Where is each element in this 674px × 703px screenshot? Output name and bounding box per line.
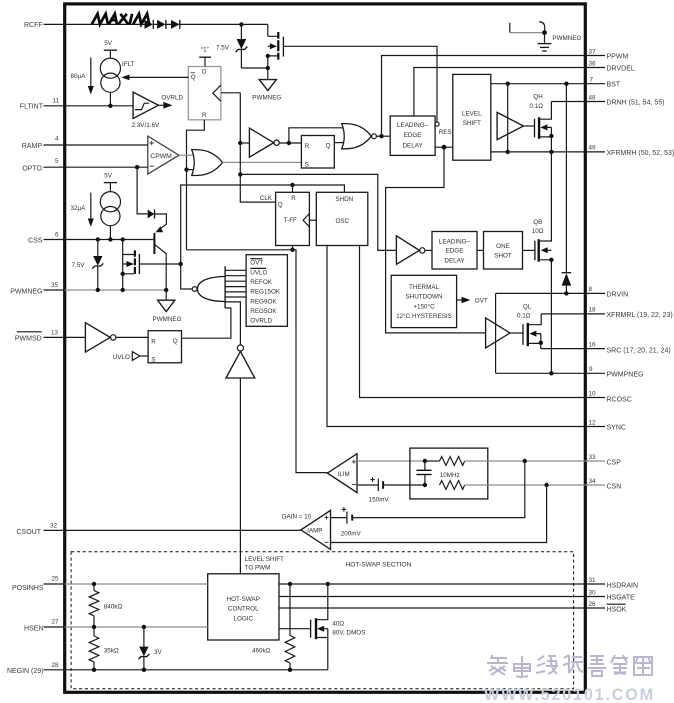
label LEVEL SHIFT TO PWM xyxy=(245,556,284,571)
pin 6 CSS xyxy=(28,232,65,245)
diode D2 on RCFF line xyxy=(157,20,166,29)
gate OR1 (pwm or) xyxy=(192,150,223,176)
svg-text:REG9OK: REG9OK xyxy=(250,298,277,305)
wire OSC to T-FF clock xyxy=(309,219,316,221)
wire SRC xyxy=(541,348,586,350)
wire PWMSD internal xyxy=(65,336,86,338)
resistor 840k xyxy=(89,584,122,627)
svg-text:ILIM: ILIM xyxy=(338,471,350,478)
svg-text:840kΩ: 840kΩ xyxy=(104,604,123,611)
svg-text:12°C HYSTERESIS: 12°C HYSTERESIS xyxy=(396,312,452,320)
svg-text:OVRLD: OVRLD xyxy=(161,94,183,101)
transistor top PFET rail xyxy=(267,24,269,79)
wire Qbar to IFLT arrow xyxy=(121,75,188,81)
wire FLTINT internal xyxy=(65,105,133,107)
wire CPWM output (gray) xyxy=(179,154,194,156)
ground PWMNEG triangle css xyxy=(153,290,182,323)
svg-text:8: 8 xyxy=(589,286,593,293)
zener 3V xyxy=(138,627,162,670)
svg-text:LEADING–: LEADING– xyxy=(439,238,471,245)
svg-text:LOGIC: LOGIC xyxy=(233,615,253,622)
svg-text:R: R xyxy=(305,143,310,150)
svg-text:28: 28 xyxy=(52,662,60,669)
svg-text:PWMPNEG: PWMPNEG xyxy=(607,371,644,378)
svg-text:REFOK: REFOK xyxy=(250,279,272,286)
wire OR1 output to S (gray) xyxy=(223,161,302,163)
wire level-shift-to-pwm riser xyxy=(239,378,241,574)
wire RCFF net xyxy=(44,23,268,25)
pin 32 CSOUT xyxy=(17,523,65,537)
junction dots PFET source / zener xyxy=(266,54,270,58)
svg-text:30: 30 xyxy=(589,589,597,596)
svg-text:HSEN: HSEN xyxy=(24,625,43,632)
svg-text:Q: Q xyxy=(278,201,283,208)
wire NEGIN xyxy=(65,669,328,671)
svg-text:XFRMRH (50, 52, 53): XFRMRH (50, 52, 53) xyxy=(607,150,674,157)
node DRVIN diode dot xyxy=(564,291,568,295)
wire D-FF R to OR input and down xyxy=(187,120,205,250)
inverter PWMSD xyxy=(85,323,116,352)
wire ONE SHOT to QB gate xyxy=(523,249,535,251)
wire NAND output up to SHDN net xyxy=(181,185,345,289)
wire LED1 out to LEVEL SHIFT xyxy=(435,146,453,148)
transistor DMOS 40ohm xyxy=(311,584,366,670)
svg-text:IAMP: IAMP xyxy=(307,528,322,535)
svg-text:5: 5 xyxy=(55,158,59,165)
svg-text:7: 7 xyxy=(590,77,594,84)
wire XFRMRH xyxy=(491,151,586,153)
svg-text:BST: BST xyxy=(607,82,621,89)
svg-text:LEVEL: LEVEL xyxy=(462,111,482,118)
wire HSEN (gray) xyxy=(65,626,208,628)
svg-text:32µA: 32µA xyxy=(71,205,87,212)
box OSC xyxy=(316,192,368,245)
svg-text:48: 48 xyxy=(589,94,597,101)
pin 36 DRVDEL xyxy=(586,60,635,72)
inverter hot-swap status (points up) xyxy=(226,345,255,378)
node R input dot xyxy=(287,141,291,145)
pin 5 OPTO xyxy=(22,158,64,173)
svg-text:Q: Q xyxy=(191,74,196,81)
node PPWM tap dot xyxy=(379,134,383,138)
input UVLO wedge to S xyxy=(113,352,148,361)
wire OSC out to SYNC xyxy=(327,246,586,427)
svg-text:SRC (17, 20, 21, 24): SRC (17, 20, 21, 24) xyxy=(607,348,671,355)
comparator FLTINT schmitt 2.3V/1.6V xyxy=(132,92,184,129)
svg-text:16: 16 xyxy=(589,341,597,348)
zener 7.5V top xyxy=(236,24,268,68)
MAXIM logo xyxy=(92,14,150,24)
svg-text:CPWM: CPWM xyxy=(150,153,172,160)
svg-text:SHOT: SHOT xyxy=(494,253,512,260)
wire T-FF R stub xyxy=(292,185,294,192)
svg-text:CSP: CSP xyxy=(607,460,622,467)
svg-text:WWW.520101.COM: WWW.520101.COM xyxy=(484,686,655,703)
node PWMPNEG dot xyxy=(549,371,553,375)
pin 13 PWMSD (overline) xyxy=(15,330,65,343)
transistor top PFET xyxy=(268,32,284,60)
pin 49 XFRMRH xyxy=(586,145,674,157)
flip-flop U1 D-type (gray) xyxy=(188,46,221,120)
svg-text:GAIN = 10: GAIN = 10 xyxy=(282,514,312,521)
svg-text:49: 49 xyxy=(589,145,597,152)
wire OPTO clamp branch to diode xyxy=(137,167,148,214)
svg-text:13: 13 xyxy=(51,330,59,337)
svg-text:THERMAL: THERMAL xyxy=(409,284,440,291)
wire DMOS gate from HSCL xyxy=(279,628,310,630)
wire OVT output arrow xyxy=(457,297,488,305)
node CSS junction dots xyxy=(96,237,100,241)
wire CLK to low-side inverter xyxy=(240,174,396,250)
capacitor C1 xyxy=(416,461,431,485)
svg-text:EDGE: EDGE xyxy=(446,248,464,255)
battery 200mV xyxy=(331,507,362,537)
svg-text:R: R xyxy=(202,112,207,119)
svg-text:7.5V: 7.5V xyxy=(216,45,230,52)
diode bootstrap xyxy=(562,273,572,294)
box HOT-SWAP CONTROL LOGIC xyxy=(208,574,279,640)
svg-text:460kΩ: 460kΩ xyxy=(252,647,271,654)
svg-text:Q: Q xyxy=(173,338,178,345)
diode clamp (to PNP emitter) xyxy=(148,209,155,218)
svg-text:37: 37 xyxy=(589,48,597,55)
svg-text:OVRLD: OVRLD xyxy=(250,318,272,325)
svg-text:HSOK: HSOK xyxy=(607,607,627,614)
node CSP/CSN filter dots xyxy=(423,459,427,463)
svg-text:OSC: OSC xyxy=(335,218,349,225)
svg-text:FLTINT: FLTINT xyxy=(20,104,44,111)
wire riser to NOR input 1 xyxy=(289,128,343,143)
svg-text:D: D xyxy=(202,69,207,76)
svg-text:T-FF: T-FF xyxy=(284,217,297,224)
svg-text:R: R xyxy=(151,338,156,345)
resistor R csn xyxy=(440,481,465,490)
svg-text:SHUTDOWN: SHUTDOWN xyxy=(405,294,443,301)
diode D3 on RCFF line xyxy=(171,20,180,29)
svg-text:DRNH (51, 54, 55): DRNH (51, 54, 55) xyxy=(607,100,665,107)
wire D-FF clock from CLK net xyxy=(221,92,240,94)
node PWMNEG junction dots xyxy=(96,288,100,292)
hot-swap dashed section box xyxy=(71,552,573,689)
box ONE SHOT xyxy=(484,232,523,270)
pin 4 RAMP xyxy=(22,136,65,151)
amplifier IAMP xyxy=(282,510,331,549)
wire CLK net vertical xyxy=(240,93,275,202)
svg-text:+150°C: +150°C xyxy=(413,302,435,310)
svg-text:DRVDEL: DRVDEL xyxy=(607,66,635,73)
wire CSP (gray) xyxy=(465,460,586,462)
svg-text:SHDN: SHDN xyxy=(335,196,353,203)
svg-text:36: 36 xyxy=(589,60,597,67)
wire HSDRAIN xyxy=(279,583,586,585)
NAND input stub 7 from inverter xyxy=(225,302,240,345)
svg-text:DRVIN: DRVIN xyxy=(607,291,629,298)
svg-text:80V, DMOS: 80V, DMOS xyxy=(332,630,365,637)
svg-text:IFLT: IFLT xyxy=(122,61,135,68)
wire DRVDEL xyxy=(414,68,586,117)
diode D1 on RCFF line xyxy=(145,20,154,29)
NAND input stubs from signal box xyxy=(225,270,246,297)
box LEVEL SHIFT xyxy=(453,74,491,160)
wire CSS internal (base) xyxy=(65,239,154,241)
svg-text:35kΩ: 35kΩ xyxy=(104,648,119,655)
pin 9 PWMPNEG xyxy=(586,366,644,378)
pin 25 POSINHS xyxy=(12,576,65,593)
svg-text:UVLO: UVLO xyxy=(113,354,130,361)
label 80uA with arrow xyxy=(71,58,94,95)
svg-text:PWMNEG: PWMNEG xyxy=(552,35,581,42)
ground symbol PWMNEG top right xyxy=(510,22,582,51)
resistor 35k xyxy=(89,627,119,670)
wire CSN (gray) xyxy=(465,484,586,486)
svg-text:150mV: 150mV xyxy=(369,497,390,504)
svg-text:CSS: CSS xyxy=(28,238,43,245)
wire RAMP internal xyxy=(65,144,148,146)
buffer QH driver xyxy=(497,112,523,139)
svg-text:REG15OK: REG15OK xyxy=(250,289,281,296)
svg-text:40Ω: 40Ω xyxy=(332,621,344,628)
box LEADING-EDGE DELAY 2 xyxy=(432,232,477,270)
chip boundary box xyxy=(65,4,586,692)
node junction on RCFF at zener xyxy=(239,22,243,26)
svg-text:DELAY: DELAY xyxy=(403,143,424,150)
svg-text:5V: 5V xyxy=(104,40,113,47)
resistor 460k xyxy=(252,584,295,670)
svg-text:9: 9 xyxy=(589,366,593,373)
svg-text:CLK: CLK xyxy=(260,195,273,202)
inverter low-side xyxy=(396,236,432,264)
svg-text:32: 32 xyxy=(50,523,58,530)
transistor M1 (CSS discharge FET) xyxy=(123,240,181,291)
pin 28 NEGIN (29) xyxy=(7,662,65,675)
svg-text:PWMSD: PWMSD xyxy=(15,336,42,343)
svg-text:5V: 5V xyxy=(104,173,113,180)
pin 31 HSDRAIN xyxy=(586,577,638,590)
svg-text:“1”: “1” xyxy=(201,46,209,53)
node CSN sense dot xyxy=(544,483,548,487)
battery 150mV xyxy=(357,477,425,503)
node CSP sense dot xyxy=(523,459,527,463)
svg-text:200mV: 200mV xyxy=(341,531,362,538)
wire OSC out to RCOSC xyxy=(360,246,586,398)
svg-text:2.3V/1.6V: 2.3V/1.6V xyxy=(132,122,160,129)
wire ILIM plus input (gray) xyxy=(357,460,425,462)
wire HSGATE xyxy=(279,596,586,598)
pin 33 CSP xyxy=(586,454,621,467)
svg-text:UVLO: UVLO xyxy=(250,269,267,276)
svg-text:10Ω: 10Ω xyxy=(532,228,544,235)
svg-text:QB: QB xyxy=(533,219,542,226)
node LED1 output dot xyxy=(442,145,447,150)
svg-text:18: 18 xyxy=(589,307,597,314)
pin 26 HSOK (overline) xyxy=(586,601,627,614)
wire OPTO internal xyxy=(65,166,148,168)
flip-flop T-FF box xyxy=(276,192,310,245)
svg-text:ONE: ONE xyxy=(496,243,510,250)
svg-text:HSGATE: HSGATE xyxy=(607,595,636,602)
svg-text:7.5V: 7.5V xyxy=(72,262,86,269)
pin 18 XFRMRL xyxy=(586,307,673,319)
svg-text:10MHz: 10MHz xyxy=(440,472,460,479)
wire QL driver rails DRVIN xyxy=(496,293,586,373)
node HSEN dots xyxy=(92,625,96,629)
wire PPWM riser xyxy=(382,56,586,137)
wire HSOK xyxy=(279,607,586,609)
pin 37 PPWM xyxy=(586,48,629,60)
node gate tap dot xyxy=(179,262,183,266)
svg-text:OVT: OVT xyxy=(250,260,263,267)
svg-text:6: 6 xyxy=(55,232,59,239)
node FLTINT / IFLT junction xyxy=(108,104,112,108)
wire T-FF bottom to OR/ILIM net xyxy=(292,246,294,250)
svg-text:HOT-SWAP: HOT-SWAP xyxy=(227,596,260,603)
svg-text:S: S xyxy=(151,356,155,363)
pin 12 SYNC xyxy=(586,419,626,431)
svg-text:12: 12 xyxy=(589,419,597,426)
svg-text:26: 26 xyxy=(589,601,597,608)
svg-text:PWMNEG: PWMNEG xyxy=(252,94,281,101)
flip-flop RS1 (pwm latch) xyxy=(301,136,334,169)
wire CSOUT xyxy=(65,529,301,531)
svg-text:CSN: CSN xyxy=(607,484,622,491)
wire RS1 Q to NOR input 2 xyxy=(334,142,343,144)
svg-text:NEGIN (29): NEGIN (29) xyxy=(7,668,44,675)
svg-text:3V: 3V xyxy=(154,649,163,656)
node BST dots xyxy=(506,82,510,86)
svg-text:RAMP: RAMP xyxy=(22,143,43,150)
svg-text:0.1Ω: 0.1Ω xyxy=(530,103,544,110)
svg-text:HOT-SWAP SECTION: HOT-SWAP SECTION xyxy=(346,562,412,569)
svg-text:HSDRAIN: HSDRAIN xyxy=(607,583,639,590)
svg-text:PPWM: PPWM xyxy=(607,54,629,61)
svg-text:PWMNEG: PWMNEG xyxy=(10,288,42,295)
svg-text:35: 35 xyxy=(51,282,59,289)
current source 32uA xyxy=(100,173,120,240)
pin 10 RCOSC xyxy=(586,390,632,403)
wire XFRMRL xyxy=(541,313,586,315)
svg-text:EDGE: EDGE xyxy=(404,132,422,139)
svg-text:27: 27 xyxy=(52,619,60,626)
box LEADING-EDGE DELAY 1 xyxy=(390,116,435,155)
wire buffer to QH gate xyxy=(523,125,534,127)
ground PWMNEG triangle top xyxy=(252,80,281,102)
svg-text:RCOSC: RCOSC xyxy=(607,397,632,404)
pin 8 DRVIN xyxy=(586,286,628,298)
comparator ILIM xyxy=(327,454,357,493)
wire NAND input from RS2 Q xyxy=(182,308,231,338)
resistor R csp xyxy=(425,457,465,466)
svg-text:0.1Ω: 0.1Ω xyxy=(517,313,531,320)
buffer QL driver xyxy=(486,318,510,348)
svg-text:SYNC: SYNC xyxy=(607,425,626,432)
svg-text:80µA: 80µA xyxy=(71,73,87,80)
svg-text:REG5OK: REG5OK xyxy=(250,308,277,315)
transistor QB 10ohm xyxy=(532,152,554,373)
svg-text:OPTO: OPTO xyxy=(22,165,42,172)
node T-FF bottom dot xyxy=(290,248,294,252)
svg-text:QL: QL xyxy=(523,304,532,311)
svg-text:S: S xyxy=(305,161,309,168)
node NEGIN dots xyxy=(92,668,96,672)
node HSDRAIN dots xyxy=(288,582,292,586)
wire BST to bootstrap diode xyxy=(565,84,567,273)
svg-text:31: 31 xyxy=(589,577,597,584)
svg-text:CSOUT: CSOUT xyxy=(17,529,42,536)
svg-text:RCFF: RCFF xyxy=(24,22,43,29)
wire BST net xyxy=(491,83,586,85)
node M1 source dot xyxy=(121,272,125,276)
pin 48 DRNH xyxy=(586,94,665,106)
svg-text:25: 25 xyxy=(52,576,60,583)
svg-text:LEADING–: LEADING– xyxy=(397,122,429,129)
transistor QL 0.1ohm xyxy=(517,304,543,349)
svg-text:11: 11 xyxy=(53,98,60,105)
wire PWMPNEG rail xyxy=(496,372,586,374)
wire PWMSD inv to RS2 R xyxy=(116,336,148,338)
node OR1 lower input dot xyxy=(184,167,194,171)
watermark chinese characters xyxy=(487,655,652,677)
svg-text:RES: RES xyxy=(439,129,452,136)
wire QL buffer to gate xyxy=(510,332,523,334)
transistor QH 0.1ohm xyxy=(530,94,554,152)
wire PWMNEG internal (gray) xyxy=(65,289,167,291)
current source IFLT xyxy=(100,40,134,106)
pin 35 PWMNEG xyxy=(10,282,64,295)
svg-text:LEVEL SHIFT: LEVEL SHIFT xyxy=(245,556,284,563)
label 32uA with arrow xyxy=(71,193,94,227)
pin 11 FLTINT xyxy=(20,98,65,111)
wire QH driver rail xyxy=(507,84,509,152)
pin 30 HSGATE xyxy=(586,589,635,601)
wire DRNH xyxy=(551,101,585,103)
gate NOR1 xyxy=(342,124,377,149)
svg-text:DELAY: DELAY xyxy=(444,257,465,264)
svg-text:R: R xyxy=(291,195,296,202)
box signal list (OVT UVLO REFOK...) xyxy=(246,255,287,327)
wire NOR out to LED1 xyxy=(376,135,390,137)
wire CSP to IAMP plus battery xyxy=(353,461,525,518)
pin 7 BST xyxy=(586,77,621,89)
svg-text:CONTROL: CONTROL xyxy=(228,606,259,613)
node CLK dots xyxy=(238,141,242,145)
svg-text:4: 4 xyxy=(55,136,59,143)
wire ILIM feedback net xyxy=(187,250,328,473)
svg-text:SHIFT: SHIFT xyxy=(463,120,481,127)
wire PFET gate to RES xyxy=(283,46,437,122)
inverter mid (clk to R) xyxy=(240,128,301,157)
node OPTO branch xyxy=(135,165,139,169)
pin 34 CSN xyxy=(586,478,621,491)
wire LED2 to ONE SHOT xyxy=(477,249,484,251)
wire CSN to IAMP minus xyxy=(331,485,547,543)
wire diode to PNP emitter with arrow xyxy=(155,214,167,232)
transistor Q1 PNP (CSS clamp) xyxy=(154,233,166,290)
svg-text:QH: QH xyxy=(533,94,543,101)
svg-text:XFRMRL (19, 22, 23): XFRMRL (19, 22, 23) xyxy=(607,312,673,319)
pin 27 HSEN xyxy=(24,619,65,633)
comparator CPWM xyxy=(148,136,179,174)
svg-text:OVT: OVT xyxy=(475,298,488,305)
svg-text:PWMNEG: PWMNEG xyxy=(153,316,182,323)
flip-flop RS2 (pwmsd latch) xyxy=(148,331,181,364)
svg-text:33: 33 xyxy=(589,454,597,461)
node RES bubble xyxy=(435,122,452,136)
svg-text:POSINHS: POSINHS xyxy=(12,585,44,592)
svg-text:Q: Q xyxy=(326,142,331,149)
node XFRMRH dots xyxy=(506,150,510,154)
svg-text:TO PWM: TO PWM xyxy=(245,564,271,571)
svg-text:10: 10 xyxy=(589,390,597,397)
